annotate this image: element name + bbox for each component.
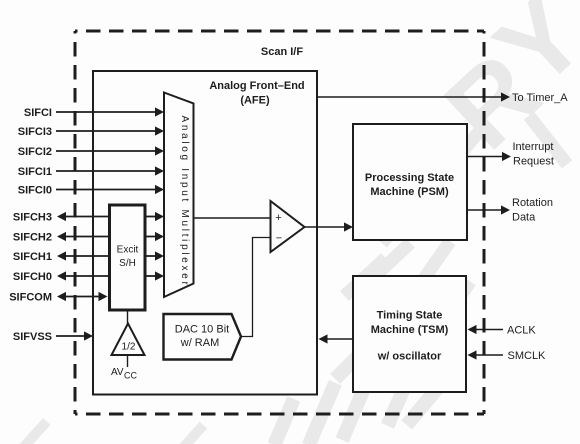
svg-text:ACLK: ACLK — [507, 325, 536, 337]
svg-text:Excit: Excit — [117, 245, 139, 256]
svg-text:To Timer_A: To Timer_A — [512, 92, 568, 104]
wire PSM to Interrupt Request — [467, 156, 503, 158]
wire SIFCI2 to mux — [56, 150, 156, 152]
svg-text:SIFCH3: SIFCH3 — [13, 212, 52, 224]
buffer amp 1/2 — [112, 324, 145, 356]
AFE block box — [93, 71, 317, 395]
wire buffer to AVCC — [127, 355, 129, 367]
wire DAC to comparator minus — [241, 238, 271, 337]
wire AFE to Timer_A — [317, 96, 502, 98]
svg-text:w/ RAM: w/ RAM — [180, 337, 220, 349]
Excit S/H box — [110, 205, 146, 310]
svg-text:SIFCI3: SIFCI3 — [18, 126, 52, 138]
svg-text:Request: Request — [513, 156, 554, 168]
svg-text:SIFCI2: SIFCI2 — [18, 146, 52, 158]
svg-text:Machine (PSM): Machine (PSM) — [370, 186, 449, 198]
svg-text:w/ oscillator: w/ oscillator — [377, 351, 442, 363]
comparator — [271, 201, 305, 252]
svg-text:SMCLK: SMCLK — [508, 350, 547, 362]
DAC 10 Bit w/ RAM block — [164, 314, 242, 360]
wire comparator output to PSM — [305, 226, 346, 228]
svg-text:SIFCH1: SIFCH1 — [13, 251, 52, 263]
svg-text:Scan I/F: Scan I/F — [261, 46, 303, 58]
TSM box — [353, 276, 466, 392]
wire SIFCI3 to mux — [56, 130, 156, 132]
svg-text:SIFCOM: SIFCOM — [9, 292, 52, 304]
wire SMCLK into TSM — [468, 350, 477, 359]
svg-text:SIFCI1: SIFCI1 — [18, 166, 52, 178]
wire SIFCOM bidirectional to Excit — [57, 292, 66, 301]
svg-text:Machine (TSM): Machine (TSM) — [371, 324, 449, 336]
svg-text:+: + — [275, 212, 281, 224]
wire SIFCI to mux — [56, 111, 156, 113]
svg-text:SIFCH0: SIFCH0 — [13, 271, 52, 283]
outer dashed border (Scan I/F module) — [75, 30, 484, 33]
svg-text:Data: Data — [512, 212, 536, 224]
svg-text:SIFCI0: SIFCI0 — [18, 185, 52, 197]
wire mux output to comparator plus — [194, 217, 271, 219]
svg-text:Analog Input Multiplexer: Analog Input Multiplexer — [179, 115, 190, 287]
svg-text:−: − — [276, 233, 282, 245]
svg-text:S/H: S/H — [119, 258, 136, 269]
wire Excit to mux row CH2 — [145, 236, 156, 238]
wire ACLK into TSM — [468, 325, 477, 334]
wire Excit to mux row CH1 — [145, 255, 156, 257]
wire Excit bottom to buffer — [127, 310, 129, 324]
analog input multiplexer U-mux — [164, 93, 194, 298]
svg-text:SIFCI: SIFCI — [24, 107, 52, 119]
svg-text:Processing State: Processing State — [365, 172, 454, 184]
svg-text:Interrupt: Interrupt — [513, 141, 554, 153]
svg-text:Analog Front–End: Analog Front–End — [209, 80, 304, 92]
wire Excit to mux row CH0 — [145, 275, 156, 277]
svg-text:(AFE): (AFE) — [240, 95, 270, 107]
wire SIFCI1 to mux — [56, 170, 156, 172]
svg-text:1/2: 1/2 — [122, 342, 136, 353]
wire SIFCI0 to mux — [56, 189, 156, 191]
wire Excit to mux row CH3 — [145, 216, 156, 218]
svg-text:CC: CC — [124, 371, 137, 381]
svg-text:SIFVSS: SIFVSS — [13, 331, 52, 343]
svg-text:DAC 10 Bit: DAC 10 Bit — [175, 324, 229, 336]
svg-text:Rotation: Rotation — [512, 197, 553, 209]
svg-text:SIFCH2: SIFCH2 — [13, 232, 52, 244]
PSM box — [353, 124, 467, 240]
wire SIFVSS to AFE — [56, 335, 84, 337]
wire SIFCH1 bidirectional to Excit — [57, 251, 66, 260]
wire TSM to AFE — [319, 334, 328, 343]
svg-text:AV: AV — [111, 367, 124, 378]
wire PSM to Rotation Data — [467, 209, 502, 211]
wire SIFCH0 bidirectional to Excit — [57, 271, 66, 280]
wire SIFCH2 bidirectional to Excit — [57, 232, 66, 241]
wire SIFCH3 bidirectional to Excit — [57, 212, 66, 221]
svg-text:Timing State: Timing State — [377, 310, 443, 322]
